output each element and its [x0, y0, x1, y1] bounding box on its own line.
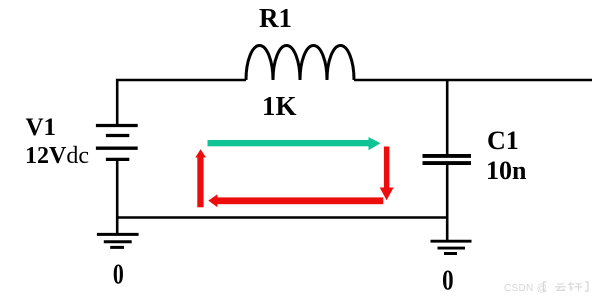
svg-text:10n: 10n	[486, 156, 527, 185]
watermark glyph xuan	[568, 282, 583, 291]
battery V1 plate 3 (long)	[96, 147, 138, 150]
wire: capacitor bottom down to right ground	[446, 165, 449, 241]
wire: bottom horizontal	[118, 216, 448, 219]
watermark "CSDN @"	[504, 283, 547, 294]
watermark bracket left	[544, 282, 547, 291]
svg-text:R1: R1	[259, 3, 292, 33]
battery V1 plate 1 (long)	[96, 124, 138, 127]
battery V1 plate 2 (short)	[106, 134, 129, 137]
resistor R1 (coil symbol, 4 humps)	[246, 45, 354, 80]
svg-text:0: 0	[442, 265, 453, 297]
wire: battery bottom down to ground junction	[116, 159, 119, 234]
capacitor C1 plate 1	[423, 154, 472, 158]
wire: top-right from R1 to right edge	[354, 79, 592, 82]
svg-text:1K: 1K	[262, 91, 297, 121]
current arrow green (top, pointing right)	[208, 137, 381, 150]
watermark glyph yun	[555, 284, 566, 291]
current arrow red down (right side)	[380, 147, 394, 201]
watermark bracket right	[585, 282, 588, 291]
current arrow red left (bottom)	[208, 194, 383, 207]
wire: right vertical from top wire to capacitor	[446, 80, 449, 154]
current arrow red up (left side)	[195, 149, 206, 207]
wire: top-left from battery top up and right to R1	[117, 80, 246, 126]
capacitor C1 plate 2	[423, 161, 472, 165]
svg-text:C1: C1	[487, 126, 519, 155]
ground (left)	[97, 234, 139, 247]
svg-text:0: 0	[113, 260, 124, 290]
svg-text:12Vdc: 12Vdc	[25, 143, 89, 169]
ground (right)	[431, 241, 472, 253]
battery V1 plate 4 (short)	[106, 158, 129, 161]
svg-text:V1: V1	[26, 114, 57, 141]
svg-text:CSDN @: CSDN @	[504, 283, 547, 294]
